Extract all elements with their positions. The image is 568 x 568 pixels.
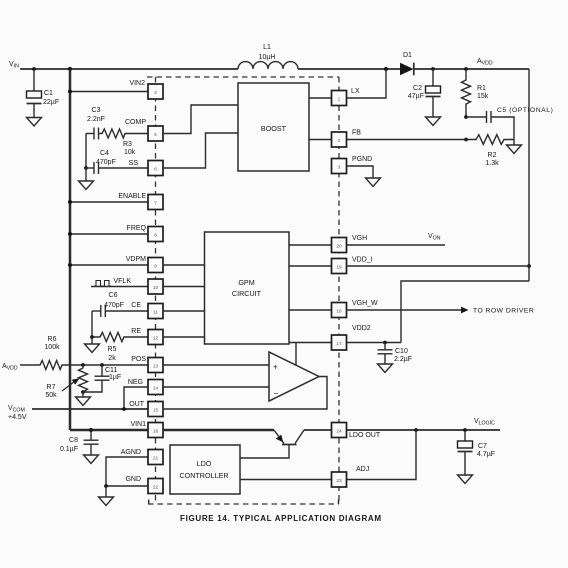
svg-text:R3: R3 [123, 141, 132, 148]
ground below C1 [27, 118, 42, 127]
svg-text:LDO: LDO [197, 459, 212, 468]
svg-text:15: 15 [153, 408, 159, 414]
svg-text:PGND: PGND [352, 156, 372, 163]
svg-text:23: 23 [336, 478, 342, 484]
svg-text:FIGURE 14. TYPICAL APPLICATION: FIGURE 14. TYPICAL APPLICATION DIAGRAM [180, 514, 382, 523]
svg-text:C3: C3 [92, 107, 101, 114]
flicker square-wave symbol [94, 281, 111, 287]
svg-text:VDD_I: VDD_I [352, 257, 373, 264]
junction C11 top [100, 363, 104, 367]
svg-text:C4: C4 [100, 150, 109, 157]
junction AGND/GND [104, 484, 108, 488]
pin VGH [332, 235, 368, 253]
resistor R3 10k [99, 129, 149, 156]
svg-text:47µF: 47µF [408, 93, 424, 100]
wire SS pin to BOOST [164, 133, 238, 168]
wire VCOM to OUT pin [32, 408, 148, 410]
capacitor C4 470pF [86, 150, 148, 174]
svg-text:+: + [273, 363, 278, 372]
junction SS / C4 [84, 166, 88, 170]
capacitor C10 2.2uF [378, 343, 413, 365]
wire NEG pin to op-amp [163, 386, 269, 388]
svg-text:2k: 2k [108, 355, 116, 362]
IC dashed boundary top edge [147, 76, 339, 78]
pin FREQ [127, 225, 163, 242]
svg-text:L1: L1 [263, 44, 271, 51]
svg-text:FB: FB [352, 130, 361, 137]
svg-text:22: 22 [153, 485, 159, 491]
capacitor C7 4.7uF [458, 430, 496, 475]
svg-text:ENABLE: ENABLE [118, 193, 146, 200]
svg-text:RE: RE [131, 328, 141, 335]
svg-text:7: 7 [154, 201, 157, 207]
svg-text:C10: C10 [395, 348, 408, 355]
pin FB [332, 130, 362, 148]
svg-text:8: 8 [154, 233, 157, 239]
transistor Q1 (PNP pass) [240, 430, 304, 458]
svg-text:C2: C2 [413, 85, 422, 92]
pin COMP [125, 119, 163, 141]
svg-text:22µF: 22µF [43, 99, 59, 106]
svg-text:OUT: OUT [129, 401, 145, 408]
svg-text:R7: R7 [47, 384, 56, 391]
junction bus tap [68, 67, 72, 71]
ground below C4 branch [79, 168, 94, 190]
wire COMP branch down [85, 134, 87, 169]
svg-text:CE: CE [131, 302, 141, 309]
wire BOOST to LX pin [309, 97, 332, 99]
wire ENABLE to bus [70, 201, 148, 203]
svg-text:AVDD: AVDD [477, 58, 493, 67]
junction NEG/OUT [122, 407, 126, 411]
svg-text:VGH: VGH [352, 235, 367, 242]
junction C7 tap [463, 428, 467, 432]
svg-text:SS: SS [129, 160, 139, 167]
pin VDD_I [332, 257, 373, 274]
wire VIN1 pin to pass transistor [163, 429, 274, 432]
svg-text:10k: 10k [124, 149, 136, 156]
wire VGH_W to row driver [347, 309, 462, 311]
svg-text:VDD2: VDD2 [352, 325, 371, 332]
junction R1 tap [464, 67, 468, 71]
svg-text:COMP: COMP [125, 119, 146, 126]
svg-text:1: 1 [338, 97, 341, 103]
svg-text:C7: C7 [478, 443, 487, 450]
svg-text:R6: R6 [48, 336, 57, 343]
wire VIN input rail [20, 68, 238, 70]
pin POS [131, 356, 163, 373]
capacitor C8 0.1uF [60, 430, 99, 455]
resistor R5 2k [92, 332, 148, 362]
svg-text:AVDD: AVDD [2, 363, 18, 372]
IC boundary bottom-left corner tick [148, 500, 150, 505]
wire GPM to VDD2 pin [289, 342, 332, 344]
ground below GND pins [99, 486, 114, 506]
junction pot top [81, 363, 85, 367]
pin VFLK [113, 278, 163, 294]
wire transistor collector to LDO OUT pin [304, 429, 332, 431]
svg-text:9: 9 [154, 264, 157, 270]
svg-text:5: 5 [154, 132, 157, 138]
svg-text:10: 10 [153, 285, 159, 291]
junction C1 tap [32, 67, 36, 71]
inductor L1 10uH [238, 44, 298, 69]
junction RE/ground branch [90, 335, 94, 339]
wire VIN2 to bus [70, 91, 148, 93]
svg-text:11: 11 [153, 310, 158, 316]
pin PGND [332, 156, 373, 174]
wire LDO CONTROLLER to ADJ pin [240, 479, 332, 481]
svg-text:NEG: NEG [128, 379, 143, 386]
svg-text:VFLK: VFLK [113, 278, 131, 285]
junction bus/VIN2 [68, 89, 72, 93]
wire RE pin to GPM [163, 336, 205, 338]
pin CE [131, 302, 163, 319]
wire FB pin to divider [347, 139, 467, 141]
wire GPM to VGH pin [289, 244, 332, 246]
wire VDPM pin to GPM [163, 264, 205, 266]
wire LX pin to switch node [347, 69, 387, 98]
IC dashed boundary bottom edge [148, 503, 339, 505]
svg-text:C1: C1 [44, 90, 53, 97]
svg-text:VIN: VIN [9, 61, 19, 70]
svg-text:VON: VON [428, 233, 441, 242]
svg-text:TO ROW DRIVER: TO ROW DRIVER [473, 308, 534, 315]
wire D1 to AVDD rail corner [414, 68, 529, 70]
junction FB node [464, 138, 468, 142]
wire PGND to ground [347, 166, 374, 178]
svg-text:470pF: 470pF [104, 302, 124, 309]
ground below PGND [366, 178, 381, 187]
wire C6 branch down [91, 311, 93, 337]
svg-text:6: 6 [154, 167, 157, 173]
svg-text:10µH: 10µH [259, 54, 276, 61]
svg-text:CIRCUIT: CIRCUIT [232, 289, 262, 298]
svg-text:D1: D1 [403, 52, 412, 59]
block GPM CIRCUIT [205, 232, 290, 344]
resistor R1 15k [462, 69, 489, 117]
svg-text:2: 2 [338, 138, 341, 144]
wire NEG feedback [124, 387, 148, 409]
junction C8 tap [89, 428, 93, 432]
IC dashed boundary right edge [338, 77, 340, 504]
svg-text:0.1µF: 0.1µF [60, 446, 78, 453]
pin GND [125, 476, 163, 494]
op-amp U1 (VCOM amplifier) [269, 352, 319, 401]
svg-text:VIN1: VIN1 [130, 421, 146, 428]
wire CE pin to GPM [163, 310, 205, 312]
potentiometer R7 50k [45, 365, 87, 399]
wire L1 to D1 [298, 68, 400, 70]
svg-text:100k: 100k [44, 344, 60, 351]
ground below C8 [84, 455, 99, 464]
svg-text:CONTROLLER: CONTROLLER [179, 471, 228, 480]
wire VDD2 to rail elbow [347, 342, 402, 344]
wire ADJ feedback [347, 430, 417, 480]
svg-text:4: 4 [154, 90, 157, 96]
wire VDD_I to AVDD rail [347, 265, 530, 267]
pin VIN2 [129, 80, 163, 99]
svg-text:R5: R5 [108, 346, 117, 353]
wire BOOST to FB pin [309, 139, 332, 141]
svg-text:LDO OUT: LDO OUT [349, 432, 381, 439]
capacitor C6 470pF [92, 292, 148, 317]
pin NEG [128, 379, 163, 395]
capacitor C2 47uF [408, 69, 441, 117]
svg-text:−: − [274, 389, 279, 398]
svg-text:R2: R2 [488, 152, 497, 159]
wire op-amp output to OUT pin [163, 377, 327, 410]
svg-text:16: 16 [153, 429, 159, 435]
wire VFLK input [91, 286, 148, 288]
pin OUT [129, 401, 163, 417]
IC dashed boundary left edge [155, 77, 157, 504]
IC boundary bottom-right corner tick [338, 500, 340, 505]
svg-text:R1: R1 [477, 85, 486, 92]
svg-text:VLOGIC: VLOGIC [474, 418, 495, 427]
diode D1 [400, 52, 414, 75]
junction LX tap [384, 67, 388, 71]
svg-text:C8: C8 [69, 437, 78, 444]
svg-text:VGH_W: VGH_W [352, 300, 378, 307]
svg-text:20: 20 [336, 244, 342, 250]
svg-text:19: 19 [336, 265, 342, 271]
resistor R6 100k [20, 336, 148, 370]
svg-text:13: 13 [153, 364, 159, 370]
junction R1 bottom / C5 [464, 115, 468, 119]
svg-text:GPM: GPM [238, 278, 254, 287]
svg-text:LX: LX [351, 88, 360, 95]
wire VDPM to bus [70, 264, 148, 266]
wire VIN1 to bus [70, 429, 148, 432]
svg-text:17: 17 [336, 341, 342, 347]
wire COMP pin to BOOST [164, 105, 238, 134]
wire AVDD rail right vertical [528, 69, 530, 281]
resistor R2 1.3k [466, 135, 514, 167]
wire VDD2 supply to op-amp [295, 343, 297, 366]
wire LDO OUT to VLOGIC [347, 429, 501, 431]
wire AVDD rail lower elbow [401, 281, 529, 343]
pin VDPM [126, 256, 163, 273]
pin AGND [121, 449, 163, 465]
svg-text:15k: 15k [477, 93, 489, 100]
junction VDD_I / rail [527, 264, 531, 268]
block LDO CONTROLLER [170, 445, 240, 494]
pin LDO OUT [332, 423, 381, 440]
junction bus/FREQ [68, 232, 72, 236]
svg-text:2.2µF: 2.2µF [394, 356, 412, 363]
wire VGH to VON [347, 244, 446, 246]
capacitor C11 1uF [83, 365, 121, 392]
wire GPM to VDD_I pin [289, 265, 332, 267]
pin VIN1 [130, 421, 163, 438]
block BOOST [238, 83, 309, 171]
ground below R5 branch [85, 337, 100, 353]
svg-text:VIN2: VIN2 [129, 80, 145, 87]
svg-text:1µF: 1µF [109, 374, 121, 381]
junction pot bottom [81, 390, 85, 394]
svg-text:14: 14 [153, 386, 159, 392]
junction C2 tap [431, 67, 435, 71]
svg-text:1.3k: 1.3k [485, 160, 499, 167]
junction bus/ENABLE [68, 200, 72, 204]
pin SS [129, 160, 163, 176]
svg-text:POS: POS [131, 356, 146, 363]
pin LX [332, 88, 360, 106]
pin VGH_W [332, 300, 379, 318]
svg-text:VDPM: VDPM [126, 256, 146, 263]
capacitor C1 22uF [27, 69, 60, 118]
svg-text:3: 3 [338, 165, 341, 171]
svg-text:BOOST: BOOST [261, 124, 287, 133]
svg-text:12: 12 [153, 336, 159, 342]
capacitor C5 (OPTIONAL) [466, 107, 553, 140]
wire main input bus (vertical) [69, 69, 72, 430]
svg-text:C6: C6 [109, 292, 118, 299]
ground below R2 [507, 140, 522, 154]
wire AGND to ground [106, 457, 148, 486]
svg-text:50k: 50k [45, 392, 57, 399]
junction ADJ feedback tap [414, 428, 418, 432]
svg-text:4.7µF: 4.7µF [477, 451, 495, 458]
svg-text:C5 (OPTIONAL): C5 (OPTIONAL) [497, 107, 553, 114]
svg-text:AGND: AGND [121, 449, 141, 456]
svg-text:21: 21 [153, 456, 159, 462]
junction C10 tap [383, 341, 387, 345]
svg-text:GND: GND [125, 476, 141, 483]
svg-text:24: 24 [336, 429, 342, 435]
svg-text:2.2nF: 2.2nF [87, 116, 105, 123]
svg-text:FREQ: FREQ [127, 225, 147, 232]
ground below C2 [426, 117, 441, 126]
svg-text:+4.5V: +4.5V [8, 414, 27, 421]
pin VDD2 [332, 325, 371, 350]
junction bus/VDPM [68, 263, 72, 267]
wire GND to ground [106, 485, 148, 487]
pin ADJ [332, 466, 370, 487]
pin RE [131, 328, 163, 345]
ground below C10 [378, 364, 393, 373]
pin ENABLE [118, 193, 163, 210]
svg-text:ADJ: ADJ [356, 466, 369, 473]
capacitor C3 2.2nF [86, 107, 105, 140]
wire FREQ to bus [70, 233, 148, 235]
svg-text:C11: C11 [105, 367, 117, 374]
wire GPM to VGH_W pin [289, 309, 332, 311]
svg-text:18: 18 [336, 309, 342, 315]
ground below C7 [458, 475, 473, 484]
svg-text:VCOM: VCOM [8, 405, 25, 414]
arrowhead to row driver [461, 307, 469, 314]
ground below pot [76, 392, 91, 406]
wire POS pin to op-amp [163, 364, 269, 366]
wire VFLK pin to GPM [163, 286, 205, 288]
